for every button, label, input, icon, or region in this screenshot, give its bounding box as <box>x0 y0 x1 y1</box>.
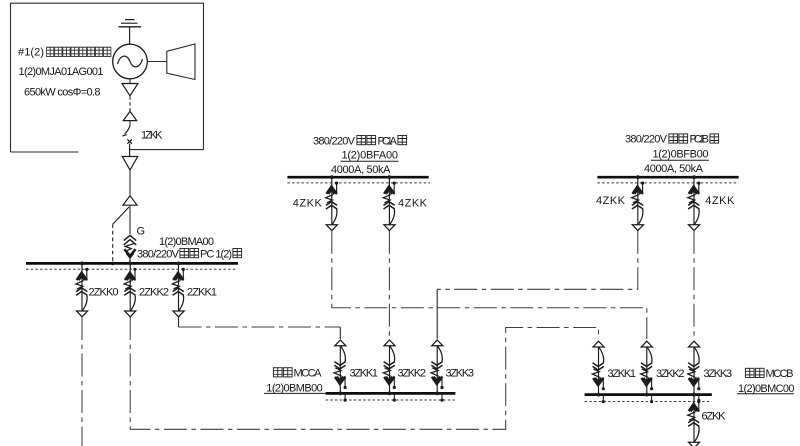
turbine horn <box>147 44 195 80</box>
dashed wire <box>129 97 131 112</box>
svg-text:MCCA: MCCA <box>294 367 323 379</box>
svg-text:1(2)0BFB00: 1(2)0BFB00 <box>653 148 709 160</box>
busbar 380/220V工作PC1A段 <box>287 176 428 179</box>
label 380/220V工作PC1B段 <box>625 134 719 146</box>
svg-text:2ZKK0: 2ZKK0 <box>89 287 119 299</box>
incoming breaker at bus (G feed) <box>124 235 136 262</box>
breaker 3ZKK2 (MCCA) <box>383 340 396 395</box>
svg-text:650kW cosΦ=0.8: 650kW cosΦ=0.8 <box>24 87 101 99</box>
label 保安MCCA <box>273 367 322 379</box>
svg-text:1(2)0MJA01AG001: 1(2)0MJA01AG001 <box>19 66 104 78</box>
plug contact triangle down (below box) <box>122 157 137 171</box>
svg-text:G: G <box>137 226 146 238</box>
breaker 4ZKK (PC1A right) <box>383 175 396 230</box>
svg-text:4ZKK: 4ZKK <box>293 198 323 210</box>
svg-text:1(2)0BFA00: 1(2)0BFA00 <box>342 149 399 161</box>
svg-text:380/220V: 380/220V <box>137 248 180 260</box>
svg-text:1ZKK: 1ZKK <box>141 129 163 141</box>
label underline MCCB <box>737 393 794 395</box>
busbar 保安MCCA <box>326 392 456 395</box>
svg-text:380/220V: 380/220V <box>313 135 356 147</box>
neutral bar PC1B (dashed) <box>597 182 738 184</box>
svg-text:PC 1(2): PC 1(2) <box>200 248 232 260</box>
neutral bar MCCA (dashed) <box>326 399 456 401</box>
breaker 2ZKK0 <box>76 262 89 317</box>
breaker 2ZKK2 <box>124 262 137 317</box>
svg-text:PC1B: PC1B <box>690 134 710 146</box>
neutral stubs MCCA <box>345 393 442 400</box>
svg-text:4000A, 50kA: 4000A, 50kA <box>331 164 391 176</box>
neutral bar MCCB (dashed) <box>585 401 712 403</box>
breaker 1ZKK <box>123 125 132 156</box>
neutral bar (dashed) <box>26 268 237 270</box>
svg-text:2ZKK1: 2ZKK1 <box>187 287 217 299</box>
breaker 3ZKK2 (MCCB) <box>641 341 654 396</box>
wire <box>129 170 131 196</box>
breaker 3ZKK3 (MCCB) <box>688 341 701 396</box>
breaker 3ZKK1 (MCCA) <box>334 340 347 395</box>
svg-text:4ZKK: 4ZKK <box>705 195 735 207</box>
svg-text:1(2)0BMB00: 1(2)0BMB00 <box>266 383 323 395</box>
wire <box>129 205 131 234</box>
busbar 380/220V工作PC1B段 <box>597 176 738 179</box>
isolator diagonal to bypass <box>113 207 129 224</box>
breaker 3ZKK1 (MCCB) <box>592 341 605 396</box>
svg-text:MCCB: MCCB <box>766 368 794 380</box>
svg-text:2ZKK2: 2ZKK2 <box>139 287 169 299</box>
wire PC1A-1 to MCCB 3ZKK2 <box>332 231 647 339</box>
dashed bypass wire <box>112 224 114 262</box>
label 380/220V工作PC1A段 <box>313 135 407 147</box>
breaker 4ZKK (PC1B right) <box>688 175 701 230</box>
svg-text:3ZKK1: 3ZKK1 <box>350 368 379 380</box>
generator unit enclosure box <box>11 3 204 152</box>
svg-text:3ZKK3: 3ZKK3 <box>446 368 475 380</box>
svg-text:PC1A: PC1A <box>378 135 398 147</box>
busbar 380/220V保安PC 1(2)段 <box>26 262 238 265</box>
generator G1 circle with sine <box>113 44 148 79</box>
neutral bar PC1A (dashed) <box>287 182 430 184</box>
wire PC1A-2 to MCCA 3ZKK2 <box>388 231 390 339</box>
svg-text:3ZKK1: 3ZKK1 <box>608 368 637 380</box>
svg-text:380/220V: 380/220V <box>625 134 668 146</box>
plug contact triangle up <box>123 196 137 206</box>
breaker 6ZKK <box>688 393 701 446</box>
wire 2ZKK2 to MCCB 3ZKK1 <box>130 317 598 429</box>
svg-text:3ZKK2: 3ZKK2 <box>656 368 685 380</box>
neutral stubs MCCB <box>603 395 699 403</box>
busbar 保安MCCB <box>585 393 712 396</box>
plug contact triangle down <box>122 84 138 96</box>
wire generator to plug <box>129 79 131 84</box>
breaker 3ZKK3 (MCCA) <box>431 340 444 395</box>
svg-text:#1(2): #1(2) <box>18 47 44 59</box>
text #1(2)号机柴油发电机组 <box>18 47 111 59</box>
plug contact triangle up <box>123 111 136 120</box>
label 380/220V保安PC 1(2)段 <box>137 248 242 260</box>
label underline MCCA <box>264 392 326 394</box>
node on bus (bypass) <box>111 262 115 266</box>
svg-text:4ZKK: 4ZKK <box>596 195 626 207</box>
wire <box>129 121 131 126</box>
wire PC1B-1 to MCCA 3ZKK3 <box>437 231 638 289</box>
breaker 2ZKK1 <box>172 262 185 317</box>
svg-text:4ZKK: 4ZKK <box>398 198 428 210</box>
wire 2ZKK0 feeder down <box>81 317 83 446</box>
ground <box>118 20 141 45</box>
svg-text:6ZKK: 6ZKK <box>702 411 727 423</box>
wire PC1B-2 to MCCB 3ZKK3 <box>693 231 695 339</box>
svg-text:3ZKK2: 3ZKK2 <box>398 368 427 380</box>
svg-text:3ZKK3: 3ZKK3 <box>704 368 733 380</box>
wire 2ZKK1 to MCCA 3ZKK1 <box>178 317 180 327</box>
label 保安MCCB <box>745 368 793 380</box>
underline <box>341 160 399 162</box>
underline <box>651 159 709 161</box>
breaker 4ZKK (PC1A left) <box>326 175 339 230</box>
breaker 4ZKK (PC1B left) <box>632 175 645 230</box>
svg-text:1(2)0BMA00: 1(2)0BMA00 <box>159 236 214 248</box>
svg-text:1(2)0BMC00: 1(2)0BMC00 <box>738 383 795 395</box>
svg-text:4000A, 50kA: 4000A, 50kA <box>644 163 704 175</box>
